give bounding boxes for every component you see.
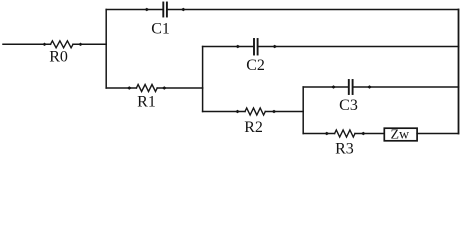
wire main right segment [73,43,106,45]
wire C3 rail right [354,86,459,88]
svg-text:R3: R3 [335,140,354,157]
capacitor C2 [254,39,258,55]
junction marker right of R1 [162,86,167,89]
resistor R2 [245,108,265,115]
wire R2 branch right [265,111,303,113]
wire R2 branch left [203,111,245,113]
wire bottom branch left [303,133,334,135]
wire between R3 and Zw [355,133,384,135]
wire main left segment [3,43,51,45]
wire C3 rail left [303,86,348,88]
wire C2 rail right [259,46,459,48]
junction marker left of R2 [235,110,240,113]
wire R1 branch left [106,87,136,89]
capacitor C1 [163,3,167,17]
svg-text:R0: R0 [49,48,68,65]
junction marker left of R0 [42,43,47,46]
wire top rail left of C1 [106,9,162,11]
junction marker left of R1 [127,86,132,89]
node V1 vertical wire [105,10,107,89]
junction marker left of C3 [331,85,336,88]
wire right rail [458,10,460,134]
wire top rail right of C1 [168,9,459,11]
svg-text:C3: C3 [339,97,358,114]
junction marker left of C1 [144,8,149,11]
wire C2 rail left [203,46,253,48]
wire Zw to right rail [417,133,458,135]
warburg element Zw box [384,128,417,141]
junction marker left of C2 [235,45,240,48]
junction marker right of R2 [272,110,277,113]
svg-text:R2: R2 [244,119,263,136]
resistor R0 [51,41,74,48]
svg-text:C2: C2 [246,57,265,74]
wire R1 branch right [157,87,202,89]
capacitor C3 [349,80,353,94]
resistor R1 [136,85,157,92]
junction marker right of C3 [367,85,372,88]
junction marker right of C2 [272,45,277,48]
svg-text:R1: R1 [137,93,156,110]
junction marker right of R3 [361,132,366,135]
junction marker left of R3 [324,132,329,135]
node V2 vertical wire [202,47,204,112]
node V3 vertical wire [302,87,304,134]
svg-text:Zw: Zw [390,127,410,142]
junction marker right of C1 [181,8,186,11]
junction marker right of R0 [78,43,83,46]
svg-text:C1: C1 [151,21,170,38]
resistor R3 [335,130,355,137]
